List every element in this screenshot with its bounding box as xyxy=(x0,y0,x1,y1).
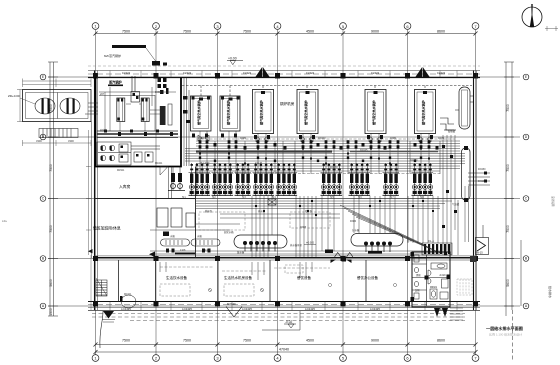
svg-text:3300: 3300 xyxy=(36,139,42,143)
top-left flue bar xyxy=(112,45,146,48)
annex tank room xyxy=(23,90,92,122)
east outfall valve box xyxy=(476,225,489,255)
svg-text:6t/h蒸汽锅炉: 6t/h蒸汽锅炉 xyxy=(104,53,121,58)
svg-text:一层给水排水平面图: 一层给水排水平面图 xyxy=(486,325,523,331)
south exterior wall xyxy=(88,301,480,311)
annex divider xyxy=(57,93,59,119)
svg-text:LC2425: LC2425 xyxy=(305,307,315,311)
svg-text:蒸汽锅炉: 蒸汽锅炉 xyxy=(109,80,123,85)
svg-text:7500: 7500 xyxy=(243,339,251,343)
south entrance door M2430 xyxy=(226,302,242,317)
compass xyxy=(522,4,542,27)
top dimension texts xyxy=(122,29,445,33)
svg-text:M1021: M1021 xyxy=(155,162,163,165)
toilet block xyxy=(412,252,450,307)
row2 equipment rects xyxy=(157,208,195,227)
heavy main pipe xyxy=(196,150,332,152)
vertical vessel east xyxy=(455,87,474,129)
room C wall (x94-196 y198) xyxy=(95,198,196,200)
svg-text:4500: 4500 xyxy=(306,339,314,343)
svg-text:W-15: W-15 xyxy=(477,251,484,255)
pipes through storage room xyxy=(169,167,172,199)
annex top dimension lines xyxy=(23,79,92,88)
pipe bundle verticals xyxy=(200,131,440,174)
east side vertical pipes xyxy=(443,135,469,255)
door on boiler room wall xyxy=(160,167,168,176)
svg-text:J-1L: J-1L xyxy=(2,219,8,223)
boiler room piping verticals xyxy=(99,87,176,131)
toilet labels xyxy=(415,273,446,292)
svg-text:水箱: 水箱 xyxy=(170,234,175,238)
svg-text:DN70: DN70 xyxy=(438,137,445,140)
svg-text:软化水箱: 软化水箱 xyxy=(224,230,234,234)
floor drains xyxy=(209,284,397,292)
tank T2 xyxy=(60,98,80,114)
north door triangles 2 xyxy=(415,67,430,78)
scattered annotation smudges xyxy=(117,129,486,254)
svg-text:M2430: M2430 xyxy=(227,302,236,306)
capsule tank big 1 xyxy=(234,235,287,252)
svg-text:7500: 7500 xyxy=(122,29,130,33)
svg-text:DN65: DN65 xyxy=(300,226,307,229)
bottom grid bubbles xyxy=(92,355,479,362)
svg-text:燃气真空热水锅炉: 燃气真空热水锅炉 xyxy=(196,100,201,125)
dashed platform outlines xyxy=(199,212,330,230)
svg-text:DN80: DN80 xyxy=(240,137,247,140)
exterior dashed stair east xyxy=(457,279,472,295)
svg-text:7500: 7500 xyxy=(49,164,53,172)
east exterior wall xyxy=(474,71,477,311)
west riser valves xyxy=(183,96,190,123)
svg-text:9000: 9000 xyxy=(371,29,379,33)
flue stub above wall xyxy=(152,61,167,66)
svg-text:比例 1:100 给水排水设计: 比例 1:100 给水排水设计 xyxy=(489,332,522,337)
south room equipment dashes xyxy=(160,265,303,296)
svg-text:7500: 7500 xyxy=(506,164,510,172)
svg-text:泵1: 泵1 xyxy=(182,195,186,199)
door triangles on B wall xyxy=(88,249,382,263)
svg-text:DN80: DN80 xyxy=(350,220,357,223)
svg-text:泵4: 泵4 xyxy=(272,195,276,199)
grid axis verticals xyxy=(96,30,476,355)
svg-text:LC2425: LC2425 xyxy=(370,307,380,311)
svg-text:燃气真空热水锅炉: 燃气真空热水锅炉 xyxy=(371,100,376,125)
north door triangles 1 xyxy=(255,67,270,78)
crossed box xyxy=(268,199,276,205)
svg-text:-0.02: -0.02 xyxy=(285,320,292,324)
east crossing pipes xyxy=(468,173,490,185)
svg-text:值班加班用/休息: 值班加班用/休息 xyxy=(93,226,121,231)
svg-text:供水干管: 供水干管 xyxy=(200,161,210,165)
svg-text:8600: 8600 xyxy=(437,29,445,33)
north exterior wall xyxy=(88,66,480,79)
svg-text:泵8: 泵8 xyxy=(420,195,424,199)
top grid bubbles xyxy=(92,23,479,30)
svg-text:5600: 5600 xyxy=(506,279,510,287)
svg-text:DN100: DN100 xyxy=(410,159,418,162)
svg-text:C2424: C2424 xyxy=(183,71,192,75)
boiler room small text xyxy=(100,91,162,132)
svg-text:C2424: C2424 xyxy=(371,71,380,75)
svg-text:燃气真空热水锅炉: 燃气真空热水锅炉 xyxy=(421,100,426,125)
stair xyxy=(96,278,107,296)
riser manifold xyxy=(424,244,450,254)
svg-text:泵2: 泵2 xyxy=(212,195,216,199)
row B interior wall xyxy=(93,255,478,261)
annex crossing pipes xyxy=(85,103,98,114)
svg-text:47040: 47040 xyxy=(279,348,289,352)
svg-text:DN100: DN100 xyxy=(318,137,326,140)
svg-text:膨胀罐: 膨胀罐 xyxy=(448,129,456,133)
south rooms dashed pipes xyxy=(160,267,330,271)
svg-text:C2424: C2424 xyxy=(243,71,252,75)
valve marks on verticals xyxy=(198,135,431,142)
svg-text:DN150: DN150 xyxy=(330,166,338,169)
water treatment cluster xyxy=(97,142,160,165)
svg-text:给水排水: 给水排水 xyxy=(548,286,553,298)
svg-text:给水泵: 给水泵 xyxy=(305,209,313,213)
annex ramp xyxy=(39,129,78,138)
toilet exterior ramp xyxy=(434,308,463,320)
stair exterior steps xyxy=(102,311,115,322)
annex leader line xyxy=(20,98,35,104)
svg-text:+0.00: +0.00 xyxy=(228,57,237,61)
boiler B6 xyxy=(415,90,436,134)
west exterior leader xyxy=(90,255,92,310)
svg-text:ZD+0.00: ZD+0.00 xyxy=(8,94,20,98)
top right corner ticks xyxy=(545,26,558,31)
svg-text:LC2425: LC2425 xyxy=(182,307,192,311)
svg-text:餐饮设备: 餐饮设备 xyxy=(297,275,311,280)
svg-text:7500: 7500 xyxy=(183,339,191,343)
svg-text:7500: 7500 xyxy=(122,339,130,343)
svg-text:M1021: M1021 xyxy=(124,293,132,296)
middle component stack xyxy=(131,76,140,102)
vertical pipe drops center xyxy=(252,196,438,257)
annex left dimension column xyxy=(17,90,23,122)
svg-text:DN150: DN150 xyxy=(478,168,486,171)
bottom dimension texts xyxy=(122,339,445,352)
annex dimension line below xyxy=(23,140,92,146)
svg-text:回水管: 回水管 xyxy=(255,161,263,165)
svg-text:7500: 7500 xyxy=(243,29,251,33)
svg-text:热水循环泵: 热水循环泵 xyxy=(290,243,303,247)
west exterior wall xyxy=(95,71,98,311)
svg-text:水箱: 水箱 xyxy=(197,234,202,238)
svg-text:DN50: DN50 xyxy=(155,91,162,94)
svg-text:泵7: 泵7 xyxy=(390,195,394,199)
svg-text:生活饮水设备: 生活饮水设备 xyxy=(166,275,187,280)
svg-text:7500: 7500 xyxy=(183,29,191,33)
svg-text:¢108: ¢108 xyxy=(180,249,186,252)
bottom exterior pipe right xyxy=(262,311,300,330)
bottom-left exterior pipe xyxy=(100,311,103,348)
svg-text:i=0.005: i=0.005 xyxy=(306,242,315,245)
boiler B3 xyxy=(253,90,274,134)
pump row 1 xyxy=(189,163,434,196)
svg-text:DN80: DN80 xyxy=(390,137,397,140)
svg-text:-0.020: -0.020 xyxy=(439,275,446,277)
svg-text:4500: 4500 xyxy=(306,29,314,33)
small boiler 1 xyxy=(117,98,125,122)
small boiler 2 xyxy=(141,98,149,122)
svg-text:¢108: ¢108 xyxy=(205,249,211,252)
right dimension column xyxy=(504,62,521,362)
svg-text:燃气真空热水锅炉: 燃气真空热水锅炉 xyxy=(303,100,308,125)
boiler B5 xyxy=(365,90,386,134)
south elevation mark xyxy=(284,320,296,328)
svg-text:热水泵: 热水泵 xyxy=(258,209,266,213)
top dimension line xyxy=(94,32,478,36)
vertical wall x195.5 xyxy=(195,167,197,258)
left hall pump cluster xyxy=(168,166,185,191)
hall west riser pipes xyxy=(184,78,189,166)
left dimension column xyxy=(48,62,58,316)
svg-text:循环泵: 循环泵 xyxy=(205,209,213,213)
svg-text:M0921: M0921 xyxy=(430,287,438,289)
svg-text:入库房: 入库房 xyxy=(119,184,131,189)
entrance door arc xyxy=(120,295,136,308)
svg-text:泵3: 泵3 xyxy=(242,195,246,199)
svg-text:集水器: 集水器 xyxy=(237,250,245,254)
NW boiler room walls xyxy=(96,78,182,167)
tank T1 xyxy=(35,98,55,114)
svg-text:5600: 5600 xyxy=(49,279,53,287)
capsule tank small 2 xyxy=(191,239,220,253)
canopy dashed lines south xyxy=(92,314,465,321)
svg-text:DN100: DN100 xyxy=(198,137,206,140)
west outside leader ticks xyxy=(86,130,91,255)
svg-text:泵5: 泵5 xyxy=(330,195,334,199)
boiler B1 xyxy=(191,96,212,131)
boiler room label bar xyxy=(108,80,123,87)
svg-text:DN125: DN125 xyxy=(360,149,368,152)
svg-text:7500: 7500 xyxy=(506,225,510,233)
top-right valve cluster xyxy=(158,78,169,94)
boiler B2 xyxy=(220,96,240,131)
slim capsule vessel xyxy=(462,146,471,202)
svg-text:立管: 立管 xyxy=(407,238,412,242)
svg-text:软化水: 软化水 xyxy=(100,128,108,132)
boiler6 side elbows xyxy=(440,118,456,130)
svg-text:餐饮办公设备: 餐饮办公设备 xyxy=(357,275,378,280)
boiler bases xyxy=(192,134,433,140)
diagonal pipes fan xyxy=(340,205,440,253)
svg-text:设计说明: 设计说明 xyxy=(551,196,555,207)
svg-text:8600: 8600 xyxy=(437,339,445,343)
boiler B4 xyxy=(297,90,318,134)
vertical vessel in boiler room xyxy=(160,104,172,125)
svg-text:锅炉机房: 锅炉机房 xyxy=(280,101,295,106)
right grid bubbles xyxy=(523,74,529,309)
south rooms partitions xyxy=(119,260,413,302)
capsule tank big 2 xyxy=(351,234,403,253)
toilet fixtures xyxy=(412,255,448,299)
svg-text:气压罐: 气压罐 xyxy=(452,202,460,206)
svg-text:燃气真空热水锅炉: 燃气真空热水锅炉 xyxy=(226,100,231,125)
bottom dimension line xyxy=(94,343,478,355)
slope arrow xyxy=(304,244,316,246)
svg-text:9000: 9000 xyxy=(371,339,379,343)
south room labels xyxy=(166,275,378,280)
boiler room heavy bottom band xyxy=(97,130,178,138)
svg-text:J1L-1: J1L-1 xyxy=(428,240,435,243)
svg-text:M1521: M1521 xyxy=(117,169,125,172)
svg-text:7500: 7500 xyxy=(49,225,53,233)
svg-text:C2424: C2424 xyxy=(437,71,446,75)
svg-text:1500: 1500 xyxy=(49,308,53,316)
left grid bubbles xyxy=(40,74,46,309)
svg-text:燃气真空热水锅炉: 燃气真空热水锅炉 xyxy=(259,100,264,125)
east wall corner block xyxy=(470,256,477,262)
main pipe bundle horizontals xyxy=(185,141,465,171)
pipe bundle dashed lines xyxy=(190,139,455,174)
pipes below pump row xyxy=(150,199,462,255)
pipe junction dots xyxy=(199,148,430,165)
svg-text:7500: 7500 xyxy=(506,104,510,112)
svg-text:分水器: 分水器 xyxy=(352,228,360,232)
west wall down pipe xyxy=(91,122,93,259)
svg-text:泵6: 泵6 xyxy=(358,195,362,199)
svg-text:φ57: φ57 xyxy=(100,93,105,96)
pipes to south rooms through B wall xyxy=(160,262,312,280)
grid axis horizontals xyxy=(48,77,520,306)
svg-text:C2424: C2424 xyxy=(122,71,131,75)
svg-text:生活热水机房设备: 生活热水机房设备 xyxy=(224,275,252,280)
svg-text:C2424: C2424 xyxy=(306,71,315,75)
valve flange pairs xyxy=(199,140,439,162)
svg-text:LC2425: LC2425 xyxy=(242,307,252,311)
svg-text:3300: 3300 xyxy=(68,139,74,143)
hall top flue line xyxy=(182,86,472,97)
boiler top labels xyxy=(192,91,428,101)
elevation mark top xyxy=(227,57,243,65)
drop junction dots xyxy=(255,200,434,216)
svg-text:DN100: DN100 xyxy=(478,180,486,183)
capsule tank small 1 xyxy=(161,232,190,253)
